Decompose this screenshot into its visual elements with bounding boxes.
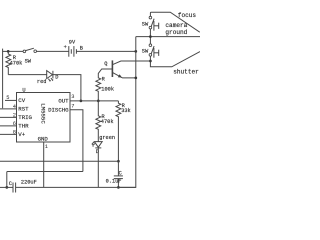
svg-text:CV: CV <box>18 97 25 104</box>
svg-text:0.1uF: 0.1uF <box>106 178 122 184</box>
wire W2: discharge net <box>7 172 83 188</box>
svg-text:GND: GND <box>38 136 49 143</box>
svg-text:470k: 470k <box>101 119 114 125</box>
svg-text:9V: 9V <box>69 39 76 45</box>
pin 6 THR <box>0 125 17 127</box>
svg-text:5: 5 <box>6 95 9 101</box>
resistor R1 470k (power-side) <box>6 51 11 74</box>
svg-text:470k: 470k <box>10 60 23 66</box>
IC U1 LM555C body <box>17 93 71 143</box>
svg-text:focus: focus <box>178 12 197 19</box>
pin 7 DISCHG <box>70 110 83 172</box>
LED D2 green <box>91 135 115 155</box>
connector (focus jack) <box>154 21 159 31</box>
switch SW1 (power) <box>23 48 36 64</box>
connector (shutter jack) <box>154 48 159 58</box>
capacitor C1 220uF <box>0 179 37 192</box>
node: C2 to bottom rail <box>117 186 120 189</box>
svg-text:8: 8 <box>13 130 16 136</box>
svg-text:1: 1 <box>45 144 48 150</box>
resistor R3 470k <box>96 101 101 142</box>
wire: red LED cathode to OUT net <box>53 75 81 101</box>
svg-text:C: C <box>119 171 122 177</box>
wire: rail end tick <box>2 49 4 52</box>
svg-text:6: 6 <box>13 121 16 127</box>
svg-text:7: 7 <box>71 103 74 109</box>
svg-text:RST: RST <box>18 106 29 113</box>
svg-text:SW: SW <box>142 21 149 27</box>
wire: top power rail from left rail corner to switch <box>3 51 24 108</box>
pin 1 GND <box>43 142 45 187</box>
resistor R4 33k <box>116 101 121 161</box>
battery B 9V <box>64 39 83 56</box>
svg-text:4: 4 <box>13 104 16 110</box>
resistor R2 100k <box>96 78 101 101</box>
svg-text:red: red <box>37 79 47 85</box>
svg-text:+: + <box>64 45 67 51</box>
wire W1: timing net <box>0 160 118 162</box>
node: emitter to ground rail <box>134 77 137 80</box>
svg-text:D: D <box>55 74 58 80</box>
svg-text:THR: THR <box>18 123 29 130</box>
node A: junction of R1 with top rail <box>7 50 10 53</box>
svg-text:100k: 100k <box>101 86 114 92</box>
wire: focus switch to ground node <box>149 29 151 44</box>
svg-text:Q: Q <box>104 61 107 67</box>
camera ground wire <box>136 36 200 38</box>
capacitor C2 0.1uF <box>106 161 123 187</box>
svg-text:DISCHG: DISCHG <box>48 107 69 114</box>
svg-text:C: C <box>9 181 12 187</box>
node: collector to shutter column <box>149 60 152 63</box>
svg-text:TRIG: TRIG <box>18 114 32 121</box>
switch SW2 (focus) <box>142 16 154 29</box>
bottom ground rail <box>16 186 136 188</box>
wire: battery to right ground rail <box>76 50 135 52</box>
node: switch column on ground wire <box>149 35 152 38</box>
svg-text:ground: ground <box>165 29 187 36</box>
svg-text:B: B <box>80 46 83 52</box>
svg-text:camera: camera <box>165 22 187 29</box>
svg-text:R: R <box>102 77 106 83</box>
pin 4 RST <box>0 108 17 110</box>
svg-text:OUT: OUT <box>58 98 69 105</box>
wire: green LED to bottom rail <box>97 148 99 188</box>
svg-text:SW: SW <box>25 59 32 65</box>
wire: base net <box>98 69 112 78</box>
svg-text:3: 3 <box>71 94 74 100</box>
shutter wire <box>150 52 200 67</box>
svg-text:LM555C: LM555C <box>40 103 47 124</box>
pin 5 CV <box>5 99 17 101</box>
pin 2 TRIG <box>0 116 17 118</box>
node: W2 to C1 lead <box>5 186 8 189</box>
switch SW3 (shutter) <box>142 44 154 56</box>
svg-text:SW: SW <box>142 48 149 54</box>
svg-text:shutter: shutter <box>173 68 199 75</box>
node: battery minus to ground rail <box>134 50 137 53</box>
node: OUT net junction red LED branch <box>80 100 83 103</box>
wire: switch to battery <box>37 50 69 52</box>
svg-text:U: U <box>22 87 25 93</box>
pin 8 V+ <box>0 133 17 135</box>
wire: R1 to red LED <box>8 74 46 76</box>
node: OUT net junction at R2/R3 <box>97 100 100 103</box>
LED D1 red <box>37 71 58 85</box>
svg-text:2: 2 <box>13 113 16 119</box>
svg-text:33k: 33k <box>121 108 131 114</box>
focus wire <box>150 12 199 32</box>
transistor Q1 <box>104 60 150 78</box>
node: W1 to R4 column <box>117 160 120 163</box>
pin 3 OUT <box>70 100 118 102</box>
right ground rail <box>118 37 135 188</box>
svg-text:green: green <box>99 135 115 141</box>
svg-text:220uF: 220uF <box>21 179 37 185</box>
svg-text:V+: V+ <box>18 131 25 138</box>
